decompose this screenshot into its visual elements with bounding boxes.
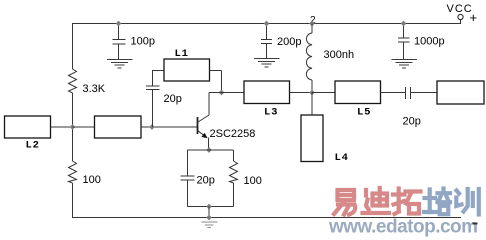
wire RC bottom to ground rail bbox=[208, 207, 210, 218]
char 培 (blue) bbox=[424, 189, 450, 215]
wire bottom ground rail bbox=[72, 217, 461, 219]
capacitor C 100p bbox=[113, 24, 155, 60]
wire emitter RC bottom bbox=[188, 206, 234, 208]
inductor L5 box bbox=[335, 81, 381, 104]
inductor 300nh bbox=[306, 24, 354, 93]
wire left vertical rail bbox=[72, 24, 74, 70]
inductor L4 box (vertical) bbox=[301, 115, 323, 162]
junction dot bias node bbox=[70, 124, 76, 130]
component L2 box bbox=[5, 116, 51, 138]
svg-text:+: + bbox=[470, 10, 478, 25]
wire box to base bbox=[141, 126, 198, 128]
inductor L3 box bbox=[244, 81, 290, 104]
component output load box bbox=[437, 81, 484, 104]
junction dot collector node bbox=[219, 90, 225, 96]
ground of 100p bbox=[107, 60, 133, 69]
svg-text:L3: L3 bbox=[264, 107, 278, 119]
svg-text:www.edatop.com: www.edatop.com bbox=[328, 217, 478, 238]
wire collector node to L3 bbox=[222, 92, 245, 94]
wire L3 to node bbox=[290, 92, 313, 94]
svg-text:L1: L1 bbox=[175, 48, 189, 60]
resistor 3.3K bbox=[69, 69, 106, 95]
VCC terminal bbox=[447, 3, 478, 25]
capacitor 20p (output) bbox=[403, 87, 421, 128]
svg-text:100: 100 bbox=[83, 174, 101, 186]
svg-text:300nh: 300nh bbox=[324, 49, 355, 61]
wire top supply rail bbox=[72, 23, 461, 25]
svg-text:2SC2258: 2SC2258 bbox=[210, 128, 256, 140]
svg-text:200p: 200p bbox=[277, 36, 301, 48]
ground symbol below rail bbox=[202, 222, 218, 228]
char 拓 (red) bbox=[393, 189, 421, 215]
svg-text:20p: 20p bbox=[164, 93, 182, 105]
transistor Q1 2SC2258 bbox=[198, 115, 256, 150]
svg-text:100: 100 bbox=[244, 175, 262, 187]
svg-text:1000p: 1000p bbox=[414, 36, 445, 48]
wire output cap to load box bbox=[411, 92, 438, 94]
svg-text:L5: L5 bbox=[357, 107, 371, 119]
junction dot on ground rail bbox=[206, 215, 212, 221]
resistor 100 (emitter) bbox=[230, 150, 262, 207]
junction dot at 1000p tap bbox=[401, 21, 407, 27]
junction dot at node 2 bbox=[309, 21, 315, 27]
resistor 100 (left bias) bbox=[69, 161, 101, 186]
svg-text:20p: 20p bbox=[197, 174, 215, 186]
wire node to filter box bbox=[73, 126, 95, 128]
watermark tm mark bbox=[473, 223, 478, 225]
junction dot mid node bbox=[309, 90, 315, 96]
char 训 (blue) bbox=[456, 189, 479, 215]
capacitor C 200p bbox=[261, 24, 301, 59]
char 迪 (red) bbox=[363, 188, 390, 213]
svg-text:100p: 100p bbox=[131, 35, 155, 47]
junction dot RC bottom bbox=[206, 204, 212, 210]
wire L5 to output cap bbox=[381, 92, 406, 94]
junction dot emitter top bbox=[206, 147, 212, 153]
wire collector node left to transistor bbox=[209, 93, 222, 116]
watermark chinese characters bbox=[334, 188, 479, 215]
wire L1 right side down to collector node bbox=[210, 71, 222, 93]
wire node to L5 bbox=[312, 92, 335, 94]
inductor L1 box bbox=[164, 59, 210, 81]
capacitor C 1000p bbox=[398, 24, 445, 60]
junction dot feedback tap bbox=[149, 124, 155, 130]
svg-text:L2: L2 bbox=[26, 139, 40, 151]
char 易 (red) bbox=[334, 190, 355, 215]
svg-text:L4: L4 bbox=[335, 152, 349, 164]
capacitor 20p (emitter) bbox=[181, 150, 215, 207]
capacitor 20p (feedback) bbox=[146, 70, 182, 127]
wire L2 to node bbox=[51, 126, 73, 128]
wire emitter RC top bbox=[188, 149, 234, 151]
junction dot at 200p tap bbox=[264, 21, 270, 27]
ground of 1000p bbox=[392, 60, 418, 69]
component filter box (unnamed) bbox=[95, 116, 142, 138]
ground of 200p bbox=[254, 59, 280, 68]
junction dot at 100p tap bbox=[116, 21, 122, 27]
svg-text:3.3K: 3.3K bbox=[83, 83, 106, 95]
svg-text:20p: 20p bbox=[403, 116, 421, 128]
wire node down to L4 bbox=[311, 93, 313, 116]
